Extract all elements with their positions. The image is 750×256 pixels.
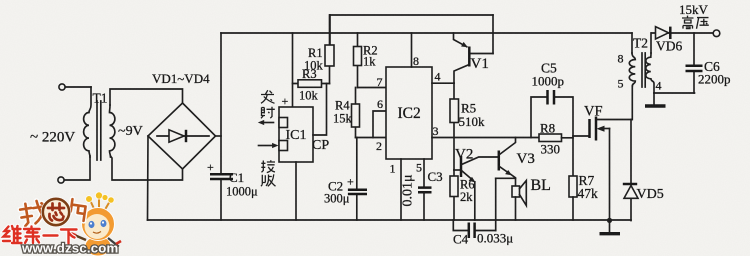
transistor V3 (NPN) <box>498 151 501 171</box>
loudspeaker BL <box>512 186 520 197</box>
capacitor C4 branch <box>453 220 495 231</box>
capacitor C6 <box>693 33 695 93</box>
transformer T2 core <box>642 53 645 87</box>
wire: pin 4 to V1 collector / R5 node <box>432 82 454 84</box>
diode VD5 <box>630 120 632 221</box>
transformer T2 primary (pins 8,5) <box>631 33 633 53</box>
wire: rail A right drop to V1 base <box>492 15 494 54</box>
VF drain lead <box>596 119 632 121</box>
resistor R8 (in output line) <box>539 134 562 142</box>
watermark red text wei ku yi xia <box>3 226 77 244</box>
wire: T1 secondary top to bridge top vertex <box>110 89 183 105</box>
label receive (jie shou) <box>261 160 276 186</box>
wire: +V rail B <box>221 32 632 34</box>
wire: pin 3 output line to R8 <box>432 137 539 139</box>
resistor R1 <box>329 15 331 84</box>
capacitor C5 loop (parallel with R8) <box>531 97 573 176</box>
wire: pin6 link down to pin2 node <box>373 111 386 138</box>
watermark mascot <box>70 192 121 256</box>
transformer T1 secondary winding <box>110 105 115 157</box>
IC1 upper pad <box>279 118 288 128</box>
wire: HV output line <box>652 32 714 34</box>
wire: pin 1 ground <box>400 159 402 220</box>
ground symbol (main) <box>609 221 611 234</box>
resistor R3 <box>293 83 330 85</box>
wire: pin 5 to C3 <box>423 159 425 187</box>
wire: supply column below C1 to bottom rail <box>220 180 222 220</box>
wire: IC1 output CP to R1/R3 node <box>313 84 327 136</box>
op-amp/timer IC2 box <box>386 67 432 159</box>
VF source lead with arrow <box>601 128 610 130</box>
transistor V2 (NPN) <box>454 169 460 171</box>
ground symbol (T2 secondary) <box>653 93 655 106</box>
wire: left supply column top (rail B corner down to bridge + output) <box>220 33 222 173</box>
wire: pin2 node <box>356 137 387 139</box>
label high voltage (gao ya) <box>682 16 709 29</box>
transformer T2 secondary <box>646 53 651 79</box>
capacitor C2 (polarized) <box>356 138 358 221</box>
junction dot (VF source / ground rail) <box>607 218 612 223</box>
wire: T1 secondary bottom to bridge bottom vertex <box>111 156 183 180</box>
wire: T2 pin4 to C6 bottom <box>654 92 695 94</box>
wire: pin 8 to rail B <box>411 33 413 67</box>
wire: IC1 ground to bottom rail <box>295 162 297 220</box>
resistor R7 <box>569 176 577 197</box>
wire: top terminal to T1 primary <box>65 86 91 88</box>
transformer T1 core <box>97 101 101 160</box>
terminal: AC input top circle <box>59 84 65 90</box>
capacitor C3 <box>418 188 432 193</box>
wire: T1 primary bottom to bottom terminal <box>64 156 90 180</box>
diode VD6 <box>656 27 669 39</box>
wire: bridge right vertex to supply column <box>216 135 222 137</box>
IC1 box <box>279 107 313 162</box>
capacitor C1 (polarized) <box>210 174 233 179</box>
bridge rectifier VD1~VD4 diamond <box>148 103 216 169</box>
bridge inner diode <box>157 135 209 137</box>
arrow: transmit out (left) <box>262 122 274 124</box>
transformer T1 primary winding <box>84 87 91 157</box>
MOSFET VF <box>588 119 591 138</box>
wire: V3 emitter node to C4 branch <box>496 177 516 179</box>
label transmit (fa she) <box>261 90 275 118</box>
resistor R5 <box>453 83 455 170</box>
watermark magnifier with xin <box>43 199 69 225</box>
wire: top feedback rail A (R1 top to V1 base) <box>330 14 493 16</box>
resistor R6 <box>453 170 455 220</box>
watermark logo text: zhao xin pian with magnifier <box>19 200 47 227</box>
arrow: receive in (right) <box>259 145 273 147</box>
resistor R2 <box>357 33 359 88</box>
wire: pin7 node (R2/R4 junction to IC2) <box>358 87 387 89</box>
scan grain overlay <box>0 0 1 1</box>
terminal: AC input bottom circle <box>58 177 64 183</box>
IC1 lower pad <box>279 141 288 151</box>
wire: rail A left drop to R1 top <box>329 15 331 45</box>
resistor R4 <box>355 88 357 138</box>
wire: gate feed to VF <box>573 135 589 137</box>
wire: IC1 top supply (rail B down to IC1) <box>292 33 294 107</box>
wire: bottom ground rail <box>148 219 632 221</box>
terminal: HV output circle <box>713 30 720 37</box>
transistor V1 (PNP) <box>468 47 471 67</box>
wire: bridge left vertex down to bottom rail <box>147 136 150 220</box>
